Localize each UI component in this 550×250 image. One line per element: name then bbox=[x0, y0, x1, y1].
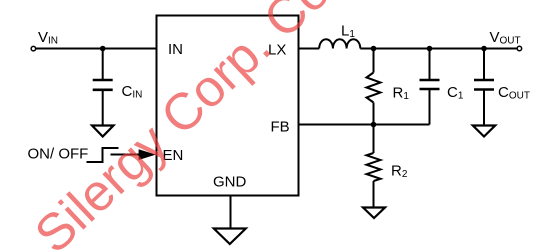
svg-text:C1: C1 bbox=[447, 84, 464, 102]
inductor L1 bbox=[319, 39, 360, 48]
junction R1 node bbox=[371, 46, 377, 52]
wire FB rail bbox=[299, 124, 430, 126]
svg-text:ON/ OFF: ON/ OFF bbox=[28, 146, 89, 163]
resistor R2 bbox=[367, 125, 381, 208]
svg-text:IN: IN bbox=[168, 41, 183, 58]
ground CIN bbox=[92, 126, 114, 137]
wire LX to L1 bbox=[299, 48, 320, 50]
svg-text:CIN: CIN bbox=[122, 83, 143, 101]
svg-text:FB: FB bbox=[271, 119, 290, 136]
svg-text:VIN: VIN bbox=[38, 29, 58, 47]
pulse symbol ON/OFF bbox=[87, 148, 119, 162]
ground GND bbox=[214, 229, 246, 245]
terminal VIN bbox=[31, 46, 36, 51]
resistor R1 bbox=[367, 49, 381, 125]
svg-text:R1: R1 bbox=[393, 85, 410, 103]
ground COUT bbox=[473, 126, 495, 137]
junction COUT node bbox=[481, 46, 487, 52]
IC U1 (buck converter body) bbox=[157, 16, 299, 196]
capacitor C1 bbox=[420, 49, 440, 125]
junction C1 node bbox=[427, 46, 433, 52]
arrowhead into EN bbox=[139, 149, 156, 160]
junction CIN node bbox=[100, 46, 106, 52]
svg-text:COUT: COUT bbox=[498, 84, 530, 102]
svg-text:L1: L1 bbox=[341, 23, 355, 41]
svg-text:VOUT: VOUT bbox=[490, 29, 521, 47]
wire VIN to IN pin bbox=[36, 48, 157, 50]
junction FB/R2 node bbox=[371, 122, 377, 128]
wire EN arrow bbox=[111, 154, 147, 156]
svg-text:R2: R2 bbox=[391, 163, 408, 181]
capacitor CIN bbox=[93, 49, 113, 126]
wire L1 to VOUT bbox=[360, 48, 517, 50]
svg-text:GND: GND bbox=[213, 174, 247, 191]
ground R2 bbox=[363, 208, 385, 219]
terminal VOUT bbox=[517, 46, 522, 51]
capacitor COUT bbox=[474, 49, 494, 126]
wire GND pin bbox=[230, 196, 232, 229]
